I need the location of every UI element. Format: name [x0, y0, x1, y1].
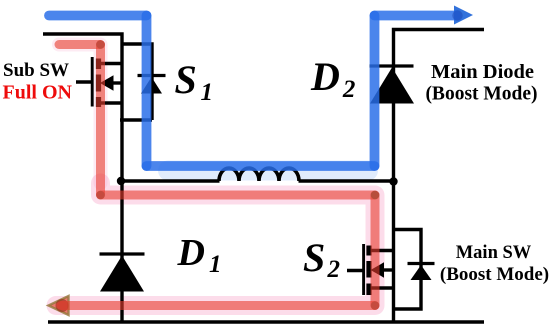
- wire S1 diode branch bottom: [120, 118, 152, 121]
- drain stub: [370, 249, 394, 252]
- gate lead: [76, 80, 92, 83]
- cathode bar: [408, 262, 435, 265]
- red path segment right vertical: [371, 195, 380, 306]
- svg-text:(Boost Mode): (Boost Mode): [425, 84, 537, 105]
- blue current path halo: [168, 161, 368, 181]
- drain stub: [99, 62, 122, 65]
- cathode bar: [370, 64, 414, 67]
- channel segment source: [366, 284, 371, 296]
- anode triangle: [141, 77, 162, 94]
- red path segment middle horizontal: [101, 191, 376, 200]
- source stub: [370, 286, 394, 289]
- red path corner dot mid-right: [371, 191, 380, 200]
- wire S2 diode branch: [394, 230, 422, 310]
- red path segment top horizontal: [59, 40, 101, 49]
- svg-text:2: 2: [327, 256, 341, 283]
- channel segment body: [96, 75, 101, 92]
- channel segment body: [366, 261, 371, 278]
- red current path halo lower: [56, 183, 375, 306]
- svg-text:S: S: [175, 57, 197, 102]
- body stub: [112, 81, 122, 84]
- wire middle rail left: [121, 179, 220, 182]
- cathode bar: [138, 74, 166, 77]
- wire S1 diode branch top: [122, 44, 152, 120]
- svg-text:Main Diode: Main Diode: [431, 61, 534, 83]
- blue path segment left vertical: [142, 16, 152, 167]
- svg-text:(Boost Mode): (Boost Mode): [440, 264, 549, 285]
- gate bar: [91, 57, 94, 107]
- red arrowhead cap blob: [56, 299, 69, 312]
- transistor Q S1 mosfet: [76, 57, 122, 107]
- red path corner dot bottom-right: [371, 301, 380, 310]
- gate lead: [347, 269, 364, 272]
- wire top-left rail: [43, 34, 122, 64]
- diode body of S2: [408, 264, 435, 281]
- body stub: [383, 268, 394, 271]
- body arrow: [371, 262, 385, 277]
- wire middle rail right: [299, 179, 394, 182]
- svg-text:Main SW: Main SW: [456, 243, 532, 263]
- anode triangle: [411, 265, 432, 280]
- channel segment drain: [366, 246, 371, 256]
- diode D2: [370, 66, 415, 104]
- channel segment drain: [96, 59, 101, 70]
- node junction left (middle rail / S1 source): [117, 177, 125, 185]
- mosfet right vertical: [120, 64, 123, 104]
- blue arrowhead: [454, 6, 473, 25]
- svg-text:S: S: [303, 235, 325, 280]
- cathode bar: [100, 252, 145, 255]
- gate bar: [362, 244, 365, 295]
- node junction right (middle rail / D2 / S2): [389, 177, 397, 185]
- wire S2 main vertical: [392, 181, 395, 322]
- body arrow: [100, 75, 114, 91]
- wire top-right rail: [394, 30, 485, 182]
- red path segment left vertical: [96, 45, 105, 196]
- wire bottom rail: [48, 320, 484, 323]
- red current path halo upper: [59, 45, 101, 184]
- wire left vertical S1 source to bottom rail: [120, 103, 123, 322]
- transistor Q S2 mosfet: [347, 244, 394, 295]
- diode D1: [100, 254, 145, 292]
- svg-text:1: 1: [201, 79, 214, 106]
- inductor L: [219, 168, 299, 181]
- diode body of S1: [138, 76, 166, 94]
- blue path segment right vertical: [370, 16, 380, 167]
- blue path segment top-left: [49, 11, 147, 21]
- svg-text:Sub SW: Sub SW: [3, 60, 69, 81]
- channel segment source: [96, 97, 101, 107]
- anode triangle: [100, 256, 144, 292]
- red path segment bottom horizontal: [61, 301, 375, 310]
- red path corner dot top-left: [96, 40, 105, 49]
- red path corner dot mid-left: [96, 191, 105, 200]
- source stub: [99, 101, 122, 104]
- blue path segment middle horizontal: [147, 161, 375, 171]
- anode triangle: [370, 68, 414, 104]
- svg-text:Full ON: Full ON: [3, 82, 73, 104]
- blue arrowhead cap blob: [452, 10, 462, 20]
- red arrowhead: [49, 296, 69, 315]
- blue path segment top-right to arrow: [375, 11, 457, 21]
